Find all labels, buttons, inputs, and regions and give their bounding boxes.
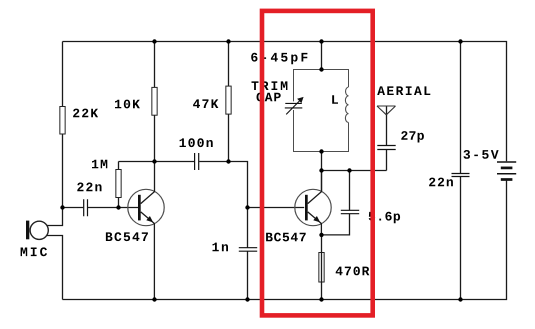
label 470R: [336, 267, 370, 276]
node top rail / 47K: [226, 39, 230, 43]
wire bottom ground rail: [63, 181, 507, 300]
label 47K: [193, 99, 218, 108]
label 22n input: [77, 183, 101, 192]
antenna AERIAL symbol: [377, 106, 396, 115]
wire mid feedback rail left: [119, 161, 195, 163]
node collector / aerial wire: [319, 168, 323, 172]
wire 27p to collector wire: [386, 150, 388, 171]
label 3-5V: [464, 150, 499, 159]
node mid rail / 47K: [226, 159, 230, 163]
wire 22n bypass rail bottom: [460, 177, 462, 300]
node mid rail / 10K collector: [152, 159, 156, 163]
capacitor C2 100n plates: [195, 153, 199, 170]
label TRIM: [252, 81, 288, 90]
node top rail / 22n: [458, 39, 462, 43]
node tank top: [319, 67, 323, 71]
wire signal to 22n: [63, 207, 84, 209]
tank circuit box with trim cap and inductor L: [294, 70, 349, 152]
label 27p: [401, 131, 424, 142]
wire 22n bypass rail top: [460, 42, 462, 174]
node 1n / Q2 base: [245, 205, 249, 209]
wire mid feedback rail right: [199, 162, 247, 248]
node tank bottom: [319, 149, 323, 153]
node ground / 470R: [319, 297, 323, 301]
wire 10K rail: [154, 42, 156, 162]
label 1n: [213, 243, 229, 252]
wire aerial feed: [386, 106, 388, 145]
transistor Q1 BC547: [128, 162, 164, 300]
wire 22n to Q1 base: [88, 207, 138, 209]
capacitor C6 22n bypass plates: [452, 174, 470, 177]
node ground / Q1 emitter: [152, 297, 156, 301]
wire tank bottom to collector node: [321, 152, 323, 192]
wire top supply rail: [63, 42, 507, 162]
trimmer arrow: [286, 101, 300, 115]
wire 1n to ground: [247, 251, 249, 299]
trimmer capacitor TRIM CAP plates: [285, 103, 303, 108]
label 10K: [115, 100, 140, 109]
node 5.6p top: [347, 168, 351, 172]
node emitter / 5.6p bottom: [319, 233, 323, 237]
label AERIAL: [377, 86, 430, 95]
label 100n: [180, 138, 213, 147]
resistor R4 1M: [116, 170, 121, 198]
node 1M / Q1 base: [116, 205, 120, 209]
label 22K: [73, 109, 98, 118]
label L: [332, 95, 338, 104]
wire tank feed from rail: [321, 42, 323, 70]
red highlight rectangle: [262, 11, 373, 316]
wire 1M rail: [118, 162, 120, 208]
node mic / 22K: [60, 205, 64, 209]
inductor L coil: [345, 87, 348, 123]
node ground / 1n: [245, 297, 249, 301]
capacitor C4 5.6p plates: [341, 210, 359, 213]
wire Q2 base: [248, 207, 305, 209]
wire mic top lead: [47, 208, 63, 226]
wire left rail: [62, 42, 64, 208]
wire 5.6p bottom lead to emitter: [322, 214, 350, 235]
label 5.6p: [369, 212, 400, 223]
label CAP: [257, 93, 281, 102]
label 1M: [92, 160, 107, 169]
label BC547 Q1: [106, 232, 148, 241]
wire mic bottom lead: [47, 236, 63, 300]
node top rail / tank feed: [319, 39, 323, 43]
capacitor C5 27p plates: [377, 146, 395, 150]
wire 47K rail: [228, 42, 230, 162]
capacitor C3 1n plates: [239, 248, 257, 252]
wire 5.6p top lead: [349, 171, 351, 211]
wire collector node to aerial: [322, 170, 387, 172]
battery B1 3-5V: [497, 162, 516, 180]
label 22n bypass: [429, 178, 453, 187]
node top rail / 10K: [152, 39, 156, 43]
transistor Q2 BC547: [295, 171, 331, 300]
resistor R2 10K: [152, 87, 157, 115]
resistor R1 22K: [60, 107, 65, 135]
label BC547 Q2: [266, 233, 306, 242]
microphone MIC: [26, 221, 48, 240]
capacitor C1 22n plates: [84, 199, 88, 216]
resistor R5 470R: [319, 253, 324, 283]
label MIC: [21, 247, 47, 256]
resistor R3 47K: [226, 86, 231, 114]
label 6-45pF: [251, 53, 307, 64]
node ground / 22n: [458, 297, 462, 301]
